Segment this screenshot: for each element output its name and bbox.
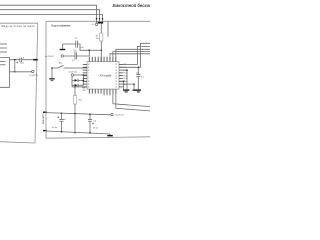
wire SA1 down: [51, 68, 53, 78]
node led right rail: [83, 80, 85, 82]
wire led2 link: [78, 84, 80, 86]
LED VD1: [75, 79, 78, 82]
ground bar C1: [60, 49, 66, 50]
svg-text:PC3: PC3: [123, 73, 126, 75]
wire AVCC to R1: [89, 49, 101, 51]
wire bottom left pin: [72, 86, 87, 88]
svg-text:PB7: PB7: [83, 90, 86, 92]
wire flag stub: [96, 21, 98, 23]
svg-text:Модуль отображения: Модуль отображения: [51, 25, 71, 28]
wire gnd pin right: [119, 84, 134, 89]
power flag VCC mid: [61, 55, 63, 57]
ground bar GB1: [33, 59, 38, 61]
node bus1 junction: [96, 18, 98, 20]
node V1 bottom: [14, 71, 16, 73]
wire exit bottom 2: [116, 89, 150, 111]
wire bus2: [0, 10, 100, 21]
svg-text:к датчику: к датчику: [42, 114, 45, 126]
capacitor C4 plus: [57, 116, 59, 118]
svg-text:Емкостной бесконтактный: Емкостной бесконтактный: [113, 3, 151, 8]
connector X1 inner pin a: [0, 61, 6, 63]
wire gnd tail: [109, 134, 111, 135]
connector X1 pin2: [0, 47, 7, 49]
svg-text:19: 19: [115, 81, 117, 83]
wire exit T3: [116, 49, 150, 57]
wire R1 top: [100, 24, 102, 34]
svg-text:PC5: PC5: [123, 78, 126, 80]
connector X1 body: [0, 58, 10, 88]
capacitor C5 plus: [92, 123, 94, 125]
capacitor C7 plus: [16, 62, 18, 64]
node AVCC junction: [88, 49, 90, 51]
svg-text:11: 11: [88, 84, 90, 86]
ground stub C1: [62, 44, 64, 49]
svg-text:31: 31: [88, 67, 90, 69]
MCU pin labels right: [123, 64, 126, 86]
node gnd rail c5: [89, 132, 91, 134]
svg-text:25: 25: [115, 70, 117, 72]
svg-text:+5 (VCC): +5 (VCC): [114, 115, 123, 117]
display module box: [46, 21, 150, 138]
power flag led: [71, 74, 73, 76]
node gnd right 2: [123, 81, 125, 83]
node R2 drop: [74, 86, 76, 88]
LED VD2: [75, 84, 78, 87]
capacitor C4 wire bottom: [61, 121, 63, 132]
wire exit R1a: [119, 46, 150, 64]
wire VCC lower: [64, 50, 90, 56]
node rail C4: [61, 112, 63, 114]
wire gnd right 1: [119, 70, 127, 89]
node rail R2: [74, 113, 76, 115]
wire exit T2: [113, 52, 150, 57]
power module box: [0, 23, 38, 143]
LED VD2 bar: [77, 84, 79, 87]
capacitor C4 wire top: [61, 113, 63, 119]
wire R2 bottom: [74, 104, 76, 115]
wire bus3: [0, 14, 103, 21]
MCU U1 inner pin numbers right: [115, 64, 117, 88]
MCU U1 inner pin numbers left: [88, 64, 90, 88]
svg-text:10к: 10к: [81, 47, 84, 49]
resistor R2: [73, 96, 76, 105]
capacitor C1 plates: [76, 41, 78, 48]
svg-text:32: 32: [88, 70, 90, 72]
capacitor C2 plates: [75, 53, 77, 60]
port stub upper: [43, 112, 47, 113]
node bus2 junction: [99, 18, 101, 20]
connector X1 pin3: [0, 51, 7, 53]
wire stub top edge: [107, 21, 109, 36]
svg-text:+5 (VCC): +5 (VCC): [68, 71, 77, 73]
node V1 top: [14, 59, 16, 61]
ground bar bottom: [107, 135, 113, 137]
ground bar right B2: [137, 91, 140, 92]
node R1 branch: [101, 50, 103, 52]
switch SA1: [52, 65, 87, 68]
wire W1: [10, 59, 33, 61]
svg-text:30: 30: [88, 64, 90, 66]
svg-text:10к: 10к: [96, 38, 99, 40]
connector X1 pin1: [0, 43, 7, 45]
svg-text:+5 (VCC): +5 (VCC): [45, 56, 54, 58]
svg-text:12: 12: [88, 87, 90, 89]
svg-text:21: 21: [115, 87, 117, 89]
svg-text:26: 26: [115, 73, 117, 75]
LED VD1 bar: [77, 79, 79, 82]
ground bar top: [98, 22, 104, 24]
resistor R1: [100, 33, 103, 41]
svg-text:47 мк: 47 мк: [93, 127, 98, 129]
ground bar right A2: [125, 91, 128, 92]
node rail C5: [89, 113, 91, 115]
wire bus3 stub: [102, 21, 104, 22]
wire R2 gnd link: [74, 115, 76, 133]
MCU U1 body: [87, 62, 119, 90]
svg-text:24: 24: [115, 67, 117, 69]
svg-text:Модуль блока питания: Модуль блока питания: [2, 25, 36, 28]
capacitor C6 plates: [20, 58, 22, 62]
connector X1 inner pin b: [0, 64, 6, 66]
capacitor C5 wire top: [89, 114, 91, 119]
svg-text:+5 (VCC): +5 (VCC): [29, 75, 38, 77]
MCU right pins: [119, 65, 123, 87]
capacitor C8 wire bottom: [137, 76, 139, 89]
capacitor C8 plates: [136, 75, 140, 77]
wire bus1: [0, 5, 97, 21]
capacitor C5 plates: [88, 119, 92, 121]
svg-text:+5: +5: [92, 24, 94, 26]
node led branch: [83, 74, 85, 76]
vcc rail: [46, 113, 111, 115]
capacitor C4 plates: [59, 119, 63, 121]
wire gnd right 2: [119, 81, 124, 89]
svg-text:47 мк: 47 мк: [52, 127, 57, 129]
wire V1: [14, 60, 16, 72]
gnd rail: [46, 131, 110, 134]
node R2 gnd: [74, 132, 76, 134]
MCU bottom pins: [89, 89, 116, 94]
wire AREF upper: [63, 44, 90, 50]
svg-text:23: 23: [115, 64, 117, 66]
node bus3 junction: [102, 18, 104, 20]
capacitor C8 wire top: [137, 67, 139, 74]
MCU left pins: [83, 65, 87, 87]
node SA1: [51, 67, 53, 69]
svg-text:ATmega88: ATmega88: [100, 75, 112, 78]
long stub bottom a: [104, 94, 110, 96]
svg-text:100n: 100n: [20, 63, 24, 65]
port stub lower: [43, 130, 47, 131]
svg-text:10: 10: [88, 81, 90, 83]
node gnd pin right: [133, 83, 135, 85]
wire led vcc: [74, 74, 87, 76]
MCU top pins: [89, 57, 116, 62]
wire exit R2a: [119, 43, 150, 67]
wire bus2 stub: [99, 21, 101, 22]
ground bar right A: [123, 89, 129, 90]
node cap C8 top: [138, 67, 140, 69]
wire led1 link: [78, 79, 80, 81]
wire R2 top: [74, 87, 76, 96]
wire exit T1: [110, 54, 150, 57]
ground bar right B: [133, 89, 141, 90]
power flag top center: [95, 23, 97, 25]
wire led left rail: [72, 76, 75, 87]
svg-text:PC4: PC4: [123, 75, 126, 77]
ground GND SA1 b: [51, 79, 54, 82]
svg-text:28: 28: [115, 78, 117, 80]
node gnd rail c4: [61, 131, 63, 133]
capacitor C5 wire bottom: [89, 121, 91, 133]
wire W2: [10, 71, 32, 73]
wire exit bottom 1: [113, 89, 150, 107]
svg-text:22: 22: [115, 84, 117, 86]
power flag rail: [111, 113, 113, 115]
node gnd right 1: [126, 69, 128, 71]
wire led right rail: [80, 75, 84, 85]
ground GND SA1: [49, 78, 54, 79]
svg-text:27: 27: [115, 75, 117, 77]
power flag +5 VCC left: [32, 70, 34, 72]
wire R1 bottom to MCU: [100, 41, 102, 62]
